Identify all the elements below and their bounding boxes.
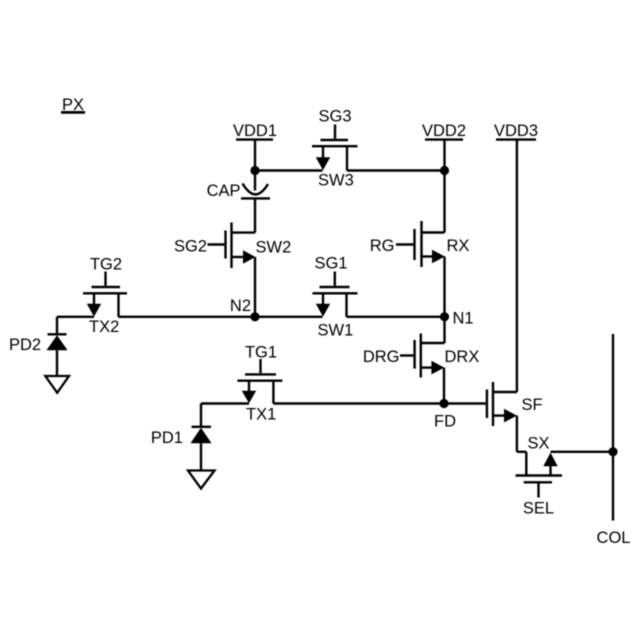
wire SW1 drain to N1 — [347, 316, 445, 318]
wire RX source to N1 — [443, 257, 445, 317]
svg-text:VDD2: VDD2 — [422, 122, 466, 140]
capacitor CAP — [241, 171, 270, 233]
svg-text:DRX: DRX — [445, 348, 480, 366]
wire COL line — [612, 334, 614, 521]
node N2 — [250, 312, 259, 321]
svg-text:TG2: TG2 — [90, 256, 122, 274]
svg-text:VDD1: VDD1 — [233, 122, 277, 140]
svg-text:PD2: PD2 — [9, 336, 41, 354]
node VDD2 junction — [440, 166, 449, 175]
svg-text:SEL: SEL — [523, 500, 554, 518]
wire SX drain to COL — [551, 451, 614, 453]
wire N2 to SW1 source — [255, 316, 323, 318]
transistor SX — [516, 453, 563, 498]
svg-text:COL: COL — [597, 529, 631, 547]
wire DRX source to FD — [443, 368, 445, 404]
svg-text:FD: FD — [434, 413, 456, 431]
wire TX2 drain to N2 — [119, 316, 256, 318]
transistor SW1 — [313, 272, 358, 317]
wire PD2 to TX2 source — [57, 316, 94, 318]
svg-text:SG2: SG2 — [174, 238, 207, 256]
svg-text:TX2: TX2 — [89, 318, 119, 336]
wire SW3 drain to VDD2 — [347, 169, 445, 171]
node COL junction — [608, 447, 617, 456]
svg-text:SX: SX — [528, 435, 550, 453]
label PX — [61, 96, 85, 114]
svg-text:N2: N2 — [230, 297, 251, 315]
ground below PD2 — [45, 376, 69, 393]
svg-text:CAP: CAP — [207, 182, 241, 200]
transistor TX1 — [237, 359, 282, 404]
svg-text:DRG: DRG — [363, 348, 400, 366]
transistor SF — [487, 382, 517, 426]
svg-text:N1: N1 — [453, 310, 474, 328]
svg-text:SW3: SW3 — [318, 172, 354, 190]
node N1 — [440, 312, 449, 321]
transistor RX — [396, 221, 445, 267]
svg-text:SW2: SW2 — [256, 239, 292, 257]
photodiode PD2 — [47, 317, 68, 376]
wire VDD1 to SW3 source — [255, 169, 323, 171]
supply VDD1 — [233, 122, 277, 171]
supply VDD3 — [494, 122, 538, 392]
svg-text:TG1: TG1 — [245, 344, 277, 362]
wire VDD2 to RX drain — [443, 171, 445, 233]
svg-text:RX: RX — [447, 237, 470, 255]
node VDD1 junction — [250, 166, 259, 175]
node FD — [439, 399, 448, 408]
svg-text:SG3: SG3 — [318, 108, 351, 126]
svg-text:SF: SF — [522, 396, 543, 414]
transistor SW2 — [208, 223, 256, 269]
wire SW2 source to N2 — [254, 257, 256, 317]
transistor TX2 — [83, 272, 127, 317]
wire TX1 drain to SF gate — [273, 402, 485, 404]
svg-text:SG1: SG1 — [314, 255, 347, 273]
wire SF source to SX — [517, 416, 526, 476]
supply VDD2 — [422, 122, 466, 171]
wire N1 to DRX drain — [443, 317, 445, 343]
ground below PD1 — [188, 471, 215, 489]
svg-text:PD1: PD1 — [151, 429, 183, 447]
photodiode PD1 — [191, 404, 212, 471]
svg-text:RG: RG — [370, 237, 395, 255]
wire PD1 to TX1 source — [201, 402, 249, 404]
transistor SW3 — [312, 125, 358, 171]
svg-text:VDD3: VDD3 — [494, 122, 538, 140]
svg-text:TX1: TX1 — [246, 406, 276, 424]
svg-text:SW1: SW1 — [318, 322, 354, 340]
transistor DRX — [400, 334, 445, 378]
